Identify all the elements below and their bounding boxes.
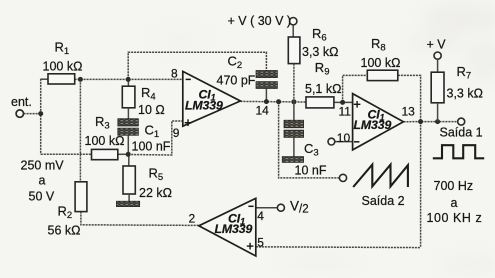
R7 bottom lead	[437, 103, 439, 122]
wire: input node vertical bus x=40.5	[40, 79, 42, 155]
svg-text:100 kΩ: 100 kΩ	[85, 134, 125, 148]
terminal pin 10 open	[328, 138, 335, 145]
junction: node 14 at C2	[264, 99, 269, 104]
wire: node A to R1 left lead	[41, 78, 48, 80]
wire: R1 right to comparator pin 8	[75, 78, 183, 80]
resistor R8 100k feedback	[361, 36, 401, 81]
wire: C2 bottom plate to node 14	[265, 88, 267, 101]
frequency label 700 Hz a 100 KHz	[427, 179, 483, 225]
svg-text:13: 13	[402, 105, 416, 119]
svg-text:LM339: LM339	[185, 99, 223, 113]
terminal saida 2	[339, 174, 404, 208]
svg-text:11: 11	[339, 105, 352, 119]
svg-text:LM339: LM339	[354, 118, 392, 132]
plus input mark	[354, 103, 361, 105]
ground below C3	[282, 157, 303, 163]
svg-text:10: 10	[337, 131, 351, 145]
C3 top lead	[293, 102, 295, 120]
junction: node 14 at R6/C3	[291, 99, 296, 104]
svg-text:100 kΩ: 100 kΩ	[43, 59, 83, 73]
minus input mark	[186, 78, 191, 80]
svg-text:50 V: 50 V	[29, 190, 55, 204]
input range label 250 mV a 50 V	[21, 159, 65, 204]
wire: pin 10 terminal stub	[335, 141, 353, 143]
svg-text:10 nF: 10 nF	[295, 164, 327, 178]
minus input mark	[248, 205, 253, 207]
svg-text:LM339: LM339	[215, 222, 253, 236]
wire: node B to comparator pin 9	[128, 121, 183, 155]
resistor R3 100k	[85, 114, 125, 160]
minus input mark	[354, 141, 359, 143]
C1 bottom lead to node B	[127, 135, 129, 154]
resistor R5 22k	[123, 154, 172, 201]
wire: R2 bottom to comparator U1c pin 2	[81, 212, 199, 226]
wire: R8 feedback left leg to pin 11 node	[343, 75, 368, 102]
svg-text:100 KH z: 100 KH z	[427, 211, 483, 225]
wire: R3 right lead to node B	[118, 153, 129, 155]
R5 top lead	[128, 154, 130, 166]
junction: node 14 at saida2 tap	[276, 99, 281, 104]
terminal V/2	[277, 199, 308, 216]
svg-text:a: a	[451, 196, 458, 210]
svg-text:8: 8	[171, 67, 178, 81]
wire: input bus to R3 left lead	[41, 153, 92, 155]
svg-text:5,1 kΩ: 5,1 kΩ	[305, 82, 341, 96]
junction: node 13 at return bus	[418, 119, 423, 124]
svg-text:a: a	[39, 174, 46, 188]
square wave symbol	[433, 145, 484, 158]
svg-text:14: 14	[256, 104, 270, 118]
resistor R9 5,1k	[305, 60, 341, 108]
junction: pin8/R4/C2 node	[126, 77, 131, 82]
svg-text:+ V ( 30 V ): + V ( 30 V )	[228, 14, 292, 28]
terminal +V (30 V)	[228, 14, 297, 37]
op-amp U1a LM339 (pins 8,9,14)	[171, 67, 240, 141]
junction: R1 right node	[78, 77, 83, 82]
junction: input node at ent.	[38, 111, 43, 116]
svg-text:3,3 kΩ: 3,3 kΩ	[447, 87, 483, 101]
wire: node 13 vertical return down right side	[420, 122, 422, 248]
R4 top lead	[127, 79, 129, 86]
svg-text:100 kΩ: 100 kΩ	[361, 56, 401, 70]
svg-text:2: 2	[189, 212, 196, 226]
svg-text:9: 9	[173, 126, 180, 140]
wire: C2 feedback loop from pin-8 node over U1a	[128, 52, 266, 79]
resistor R7 3,3k	[431, 64, 483, 122]
terminal +V right	[427, 38, 447, 73]
resistor R4 10 ohm	[122, 79, 164, 119]
capacitor C1 100nF	[118, 119, 171, 155]
C3 bottom lead	[293, 137, 295, 156]
R6 bottom lead to node 14	[293, 64, 295, 102]
resistor R6 3,3k	[288, 26, 338, 102]
svg-text:+ V: + V	[427, 38, 447, 52]
capacitor C2 470pF	[217, 54, 278, 89]
terminal saida 1	[440, 118, 483, 139]
wire: bottom return to U1c pin 5	[256, 246, 421, 249]
svg-text:56 kΩ: 56 kΩ	[48, 224, 81, 238]
svg-text:Saída 2: Saída 2	[362, 194, 405, 208]
wire: saida 2 tap from node 14 down and right	[279, 102, 340, 178]
plus input mark	[247, 245, 254, 247]
junction: node 13 at R7	[435, 119, 440, 124]
wire: R8 right leg down to output node 13	[398, 75, 421, 121]
sawtooth wave symbol	[353, 165, 408, 187]
R4 bottom lead to C1	[127, 108, 129, 119]
svg-text:700 Hz: 700 Hz	[434, 179, 474, 193]
plus input mark	[185, 122, 192, 124]
svg-text:3,3 kΩ: 3,3 kΩ	[302, 45, 338, 59]
svg-text:5: 5	[257, 235, 264, 249]
ground below R5	[116, 201, 139, 206]
wire: U1a output (node 14) to R9	[240, 100, 306, 103]
resistor R2 56k	[48, 182, 87, 238]
junction: pin 11 node	[340, 100, 345, 105]
wire: U1c pin 4 stub to V/2 terminal	[256, 207, 278, 209]
op-amp U1b LM339 (pins 11,10,13)	[337, 94, 415, 150]
svg-text:470 pF: 470 pF	[217, 74, 256, 88]
R5 bottom lead	[128, 194, 130, 201]
svg-text:22 kΩ: 22 kΩ	[139, 186, 172, 200]
svg-text:ent.: ent.	[11, 95, 32, 109]
terminal ent.	[11, 95, 32, 117]
op-amp U1c LM339 (pins 2,4,5) pointing left	[189, 198, 265, 256]
+V lead to R7	[437, 59, 439, 72]
svg-text:10 Ω: 10 Ω	[138, 103, 165, 117]
svg-text:250 mV: 250 mV	[21, 159, 65, 173]
capacitor C3 10nF	[284, 102, 327, 178]
svg-text:100 nF: 100 nF	[132, 140, 171, 154]
svg-text:Saída 1: Saída 1	[440, 126, 483, 140]
wire: R9 right lead to pin 11	[334, 101, 353, 103]
wire: ent. terminal to input node	[24, 113, 42, 115]
wire: U1b output pin 13 to saida 1	[403, 121, 457, 123]
resistor R1 100k	[43, 40, 83, 85]
svg-text:4: 4	[257, 209, 264, 223]
+V lead to R6	[292, 25, 294, 37]
junction: R3/C1/R5/pin9 node B	[126, 152, 131, 157]
wire: vertical bus R1 node down to R2 top	[79, 79, 81, 182]
